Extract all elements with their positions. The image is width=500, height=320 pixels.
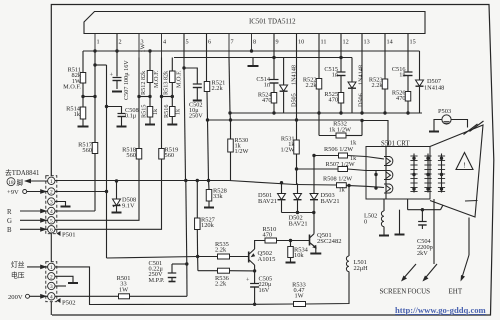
svg-text:1k: 1k	[74, 111, 81, 118]
node pin4/R513 junction jog	[162, 96, 173, 98]
wire pin6 column to W_B and bus	[206, 92, 209, 121]
svg-text:1k: 1k	[339, 187, 346, 194]
warning triangle with exclamation	[456, 153, 473, 170]
marker and label P501	[57, 231, 61, 236]
wire pin13 column	[361, 34, 363, 114]
svg-text:2SC2482: 2SC2482	[317, 238, 342, 245]
leader arrow EHT	[462, 255, 470, 279]
svg-text:去TDA8841: 去TDA8841	[5, 168, 39, 177]
wire Q501 emitter to ground	[315, 248, 317, 254]
svg-text:15: 15	[410, 39, 416, 46]
ground below C508	[117, 126, 127, 128]
diode D502 BAV21	[297, 184, 299, 194]
svg-text:560: 560	[165, 152, 175, 159]
wire feedback bus to P501-1	[55, 180, 229, 182]
connector P502 with circled pins	[46, 262, 57, 302]
node pin3/R512 junction jog	[139, 96, 150, 98]
resistor R524 470	[273, 83, 275, 93]
svg-text:R507 1/2W: R507 1/2W	[326, 161, 355, 168]
resistor R501 33 1W	[55, 295, 119, 297]
resistor R517 560	[92, 143, 98, 154]
capacitor C508 0.1u	[118, 113, 126, 115]
grid electrode G1	[413, 154, 415, 193]
resistor R530 1k 1/2W	[230, 120, 232, 139]
wire pin10 column	[296, 34, 298, 121]
wire pin2 column	[116, 34, 118, 77]
wire heater into P502-1	[27, 266, 48, 268]
wire pin9 column	[273, 34, 275, 80]
svg-text:R516: R516	[163, 105, 170, 118]
wire socket internal heater link	[375, 171, 377, 189]
svg-text:2.2k: 2.2k	[212, 85, 224, 92]
wire R input from P501-4	[55, 210, 95, 212]
inductor L502 0	[383, 199, 385, 211]
wire diode cathode bus to Q501 collector	[282, 212, 315, 214]
svg-text:1: 1	[97, 39, 100, 46]
wire G input from P501-5	[55, 159, 139, 220]
svg-text:6: 6	[208, 39, 211, 46]
svg-text:2: 2	[119, 39, 122, 46]
wire +9V spine corner to R535 row	[106, 257, 109, 259]
svg-text:2.2k: 2.2k	[215, 247, 227, 254]
svg-text:1W: 1W	[294, 293, 303, 300]
CRT socket S501 box	[366, 147, 430, 200]
node junction pin1/R511	[83, 96, 95, 98]
svg-text:560: 560	[82, 147, 92, 154]
ground below R514	[82, 119, 84, 127]
svg-text:8: 8	[253, 39, 256, 46]
svg-text:18: 18	[8, 180, 14, 186]
svg-text:1N4148: 1N4148	[424, 85, 444, 92]
resistor R521 2.2k	[204, 82, 210, 92]
svg-text:0.1μ: 0.1μ	[125, 113, 137, 120]
leader arrow FOCUS	[424, 264, 437, 280]
svg-text:R506 1/2W: R506 1/2W	[324, 146, 353, 153]
transistor Q502 A1015	[248, 252, 250, 263]
capacitor C514 1n	[270, 79, 279, 81]
wire pin5 column and 200V spine	[183, 34, 185, 69]
ground below R515	[149, 117, 151, 125]
wire P501-1 arrow to TDA8841	[25, 180, 48, 182]
svg-text:9: 9	[276, 39, 279, 46]
resistor R511 82k 1W M.O.F.	[80, 73, 86, 84]
wire P503 right to anode	[451, 120, 467, 128]
wire R513 column top to RAIL2	[171, 58, 173, 72]
svg-text:灯丝: 灯丝	[11, 260, 25, 269]
wire RAIL1 left end down to R511	[82, 51, 84, 73]
ground below R528	[208, 201, 210, 207]
wire jog pin5 to C502	[184, 68, 197, 84]
wire pin7 column to W_B crossing	[229, 113, 232, 120]
svg-text:R: R	[7, 209, 12, 216]
wire pin12 column	[340, 34, 342, 72]
marker and label P502	[57, 298, 61, 303]
resistor R535 2.2k	[218, 254, 230, 259]
svg-text:2.2k: 2.2k	[305, 82, 317, 89]
svg-text:10: 10	[298, 39, 304, 46]
wire pin4 column	[161, 58, 163, 97]
svg-text:12: 12	[343, 39, 349, 46]
svg-text:2: 2	[50, 275, 53, 281]
wire pin6 column	[206, 34, 208, 82]
svg-text:M.O.F.: M.O.F.	[153, 70, 160, 88]
wire funnel bottom to G1 row	[441, 205, 444, 210]
resistor R507 1/2W row with 1k label	[297, 168, 339, 170]
svg-text:BAV21: BAV21	[289, 220, 308, 227]
svg-text:0: 0	[364, 218, 367, 225]
cathode heater symbol K3	[384, 184, 393, 193]
zener diode D508 9.1V	[116, 181, 118, 199]
svg-text:1: 1	[50, 179, 53, 185]
svg-text:SCREEN: SCREEN	[380, 288, 407, 296]
svg-text:2: 2	[50, 190, 53, 196]
svg-text:G: G	[7, 218, 12, 225]
svg-text:M.O.F.: M.O.F.	[63, 84, 81, 91]
svg-text:R515: R515	[141, 105, 148, 118]
svg-text:+9V: +9V	[7, 189, 19, 196]
svg-text:5: 5	[50, 219, 53, 225]
wire G1 row below socket	[408, 209, 441, 211]
resistor R533 0.47 1W	[253, 303, 294, 305]
grid electrode G3	[441, 154, 443, 193]
IC pin stubs and numbers 1-15	[94, 34, 96, 52]
wire B input from P501-6	[55, 159, 162, 229]
svg-text:BAV21: BAV21	[321, 198, 340, 205]
svg-text:9.1V: 9.1V	[122, 202, 135, 209]
svg-text:脚: 脚	[17, 178, 24, 187]
wire P501-3 to ground	[55, 202, 66, 207]
svg-text:电压: 电压	[11, 271, 25, 280]
svg-text:33k: 33k	[213, 193, 223, 200]
svg-text:1k: 1k	[175, 108, 182, 115]
svg-text:2.2k: 2.2k	[215, 281, 227, 288]
svg-text:16V: 16V	[259, 287, 270, 294]
wire P503 left to ground	[434, 120, 442, 132]
capacitor C502 10u 250V	[193, 83, 202, 85]
svg-text:3: 3	[50, 200, 53, 206]
svg-text:22μH: 22μH	[354, 265, 369, 272]
resistor R515 1k	[149, 97, 151, 107]
svg-text:C507 100μ 16V: C507 100μ 16V	[123, 60, 130, 100]
resistor R527 120k	[196, 181, 198, 219]
transistor Q501 2SC2482	[309, 235, 311, 246]
svg-text:13: 13	[364, 39, 370, 46]
wire R536 row	[197, 257, 199, 271]
resistor R513 82k M.O.F.	[170, 71, 176, 83]
svg-text:10k: 10k	[294, 252, 304, 259]
diode D501 BAV21	[281, 183, 283, 194]
svg-text:11: 11	[321, 39, 327, 46]
wire W_B horizontal bus	[207, 119, 363, 121]
resistor R526 470	[407, 76, 409, 92]
diode D505 1N4148	[283, 58, 285, 86]
wire pin1 column	[94, 51, 96, 97]
wire bus continuation into R508 row	[229, 181, 295, 185]
svg-text:5: 5	[186, 39, 189, 46]
wire R512 column top to RAIL1	[149, 51, 151, 71]
svg-text:1N4148: 1N4148	[358, 65, 365, 85]
svg-text:D506: D506	[358, 93, 365, 107]
svg-text:P501: P501	[62, 232, 76, 239]
diode D506 1N4148	[351, 58, 353, 83]
svg-text:!: !	[463, 161, 466, 170]
resistor R523 2.2k	[382, 79, 388, 89]
capacitor C516 1n	[404, 71, 413, 73]
svg-text:http://www.go-gddq.com: http://www.go-gddq.com	[395, 305, 487, 315]
svg-text:2.2k: 2.2k	[371, 82, 383, 89]
capacitor C505 220u 16V electrolytic	[254, 271, 256, 283]
wire socket internal vertical	[385, 147, 387, 200]
wire heater supply from P502-1	[55, 267, 253, 305]
capacitor C515 1n	[337, 71, 346, 73]
svg-text:1: 1	[50, 265, 53, 271]
wire pin14 column	[384, 34, 386, 80]
wire +9V spine vertical	[106, 65, 108, 107]
svg-text:S501 CRT: S501 CRT	[381, 141, 410, 148]
resistor R528 33k	[208, 181, 211, 190]
connector P501 with circled pins	[46, 176, 57, 234]
diode D507 1N4148	[419, 51, 421, 80]
svg-text:1n: 1n	[399, 72, 406, 79]
svg-text:1/2W: 1/2W	[281, 147, 295, 154]
wire W_B right portion to CRT socket	[362, 121, 388, 147]
wire FOCUS lead	[433, 199, 435, 264]
svg-text:A1015: A1015	[258, 256, 277, 263]
resistor R518 560	[138, 97, 140, 149]
wire pin7 column	[229, 58, 230, 114]
svg-text:120k: 120k	[201, 222, 215, 229]
svg-text:200V: 200V	[8, 294, 23, 301]
svg-text:7: 7	[231, 39, 234, 46]
svg-text:470: 470	[329, 97, 338, 104]
anode cap strokes	[464, 124, 478, 135]
ground on RAIL2 below pin8	[252, 58, 254, 66]
svg-text:BAV21: BAV21	[258, 198, 277, 205]
resistor R531 1k 1/2W	[296, 120, 298, 140]
resistor R508 1/2W row with 1k label	[295, 184, 337, 187]
resistor R525 470	[340, 76, 342, 93]
svg-text:FOCUS: FOCUS	[408, 288, 431, 296]
resistor R532 1k 1/2W row	[318, 113, 320, 136]
wire W_A horizontal bus	[229, 112, 422, 114]
wire +9V from P501-2 to spine	[55, 191, 107, 193]
ground branch below socket	[407, 199, 409, 210]
cathode heater symbol K1	[384, 157, 393, 166]
svg-text:M.P.P.: M.P.P.	[149, 277, 165, 284]
svg-text:470: 470	[262, 97, 271, 104]
resistor R536 2.2k	[218, 268, 230, 273]
wire pin1 column lower, R517 branch	[94, 97, 96, 143]
wire +9V into P501-2	[27, 191, 48, 193]
svg-text:470: 470	[396, 95, 405, 102]
svg-text:M.O.F.: M.O.F.	[176, 70, 183, 88]
svg-text:1k: 1k	[350, 140, 357, 147]
inductor L501 22uH	[306, 272, 350, 305]
ground below C507	[112, 91, 122, 93]
svg-text:4: 4	[50, 295, 53, 301]
svg-text:+: +	[246, 278, 250, 284]
resistor R522 2.2k	[316, 79, 322, 90]
wire Q502 emitter up to R510 row	[255, 241, 265, 250]
svg-text:2kV: 2kV	[417, 250, 428, 257]
resistor R510 470	[265, 238, 277, 243]
svg-text:3: 3	[50, 284, 53, 290]
resistor R514 1k	[82, 97, 84, 108]
svg-text:P503: P503	[438, 108, 451, 115]
wire jog to C508	[107, 107, 122, 114]
resistor R506 1/2W row with 1k label	[314, 155, 339, 157]
wire pin15 column	[407, 34, 409, 72]
svg-text:4: 4	[50, 209, 53, 215]
grid electrode G2	[427, 154, 429, 193]
wire RAIL2 second rail	[174, 57, 352, 59]
wire P502-3 stub	[55, 285, 66, 287]
IC IC501 TDA5112 block	[84, 12, 425, 34]
capacitor C504 2200p 2kV	[421, 210, 423, 221]
svg-text:IC501 TDA5112: IC501 TDA5112	[249, 19, 296, 26]
wire Q502 collector down	[254, 265, 256, 271]
svg-text:1k: 1k	[152, 108, 159, 115]
svg-text:EHT: EHT	[449, 288, 463, 296]
CRT internal anode stroke	[465, 200, 478, 203]
cathode heater symbol K2	[384, 171, 393, 180]
svg-text:R512 82k: R512 82k	[140, 70, 147, 95]
resistor R512 82k M.O.F.	[147, 71, 153, 83]
svg-text:1/2W: 1/2W	[235, 148, 249, 155]
svg-text:6: 6	[50, 228, 53, 234]
wire P502-2 to ground	[55, 276, 73, 282]
leader arrow SCREEN	[403, 264, 417, 280]
resistor R519 560	[161, 97, 163, 149]
svg-text:B: B	[7, 227, 12, 234]
svg-text:1k: 1k	[350, 155, 357, 162]
svg-text:4: 4	[163, 39, 166, 46]
svg-text:14: 14	[387, 39, 393, 46]
wire pin11 column	[318, 34, 320, 79]
resistor R534 10k	[290, 241, 292, 247]
resistor R516 1k	[171, 97, 173, 107]
svg-text:P502: P502	[62, 300, 76, 307]
wire jog pin1 to +9V spine	[95, 64, 107, 66]
svg-text:1W: 1W	[119, 286, 129, 293]
ground below R534	[290, 258, 292, 263]
svg-text:470: 470	[263, 232, 273, 239]
svg-text:1n: 1n	[332, 72, 339, 79]
svg-text:250V: 250V	[189, 113, 203, 120]
capacitor C501 0.22u 250V M.P.P.	[172, 263, 187, 265]
svg-text:560: 560	[126, 152, 136, 159]
wire pin3 column	[138, 58, 140, 97]
svg-text:R513 82k: R513 82k	[163, 70, 170, 95]
diode D503 BAV21	[313, 156, 315, 194]
svg-text:1k 1/2W: 1k 1/2W	[329, 127, 352, 134]
ground below R516	[171, 117, 173, 125]
wire RAIL1 200V top rail	[83, 50, 420, 52]
wire EHT lead	[468, 218, 470, 256]
svg-text:1n: 1n	[264, 82, 271, 89]
CRT funnel outline	[430, 125, 483, 217]
svg-text:R508 1/2W: R508 1/2W	[323, 176, 352, 183]
